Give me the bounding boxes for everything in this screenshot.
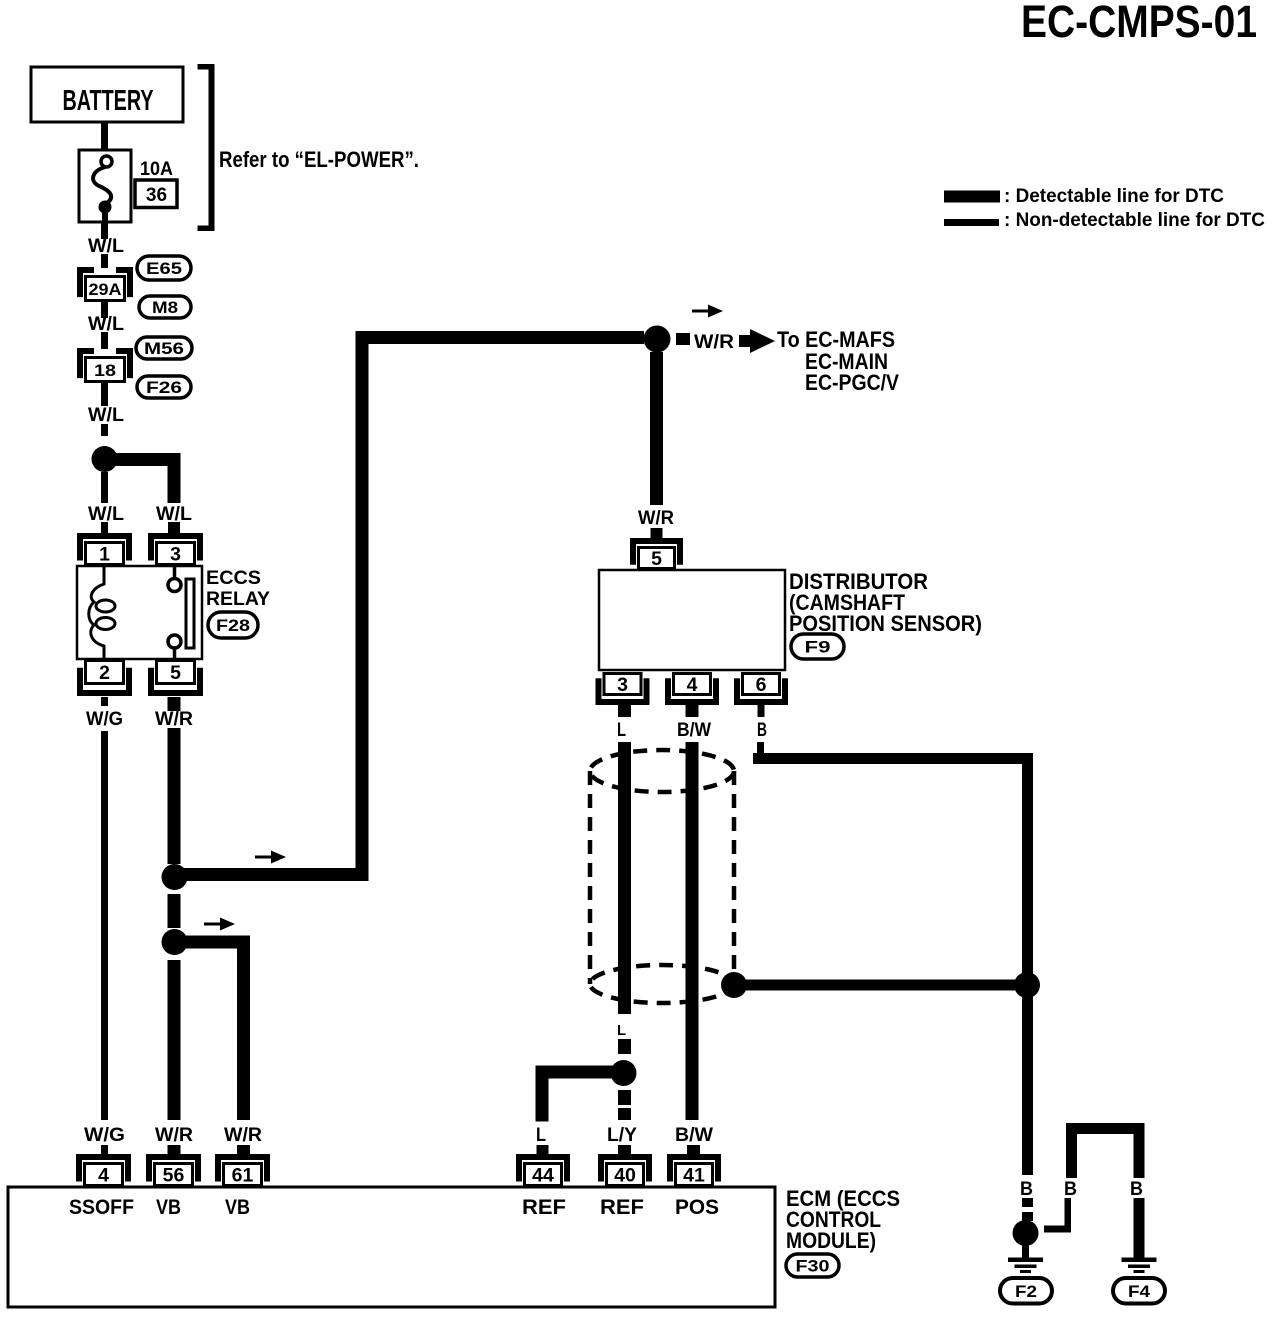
svg-text:44: 44: [532, 1165, 554, 1187]
svg-text:W/L: W/L: [156, 504, 192, 525]
svg-text:L/Y: L/Y: [607, 1125, 637, 1146]
svg-text:B/W: B/W: [677, 720, 711, 741]
svg-text:ECCS: ECCS: [206, 568, 261, 589]
svg-text:6: 6: [756, 674, 767, 696]
svg-text:VB: VB: [225, 1196, 250, 1219]
svg-text:W/L: W/L: [88, 236, 124, 257]
svg-text:B: B: [757, 720, 767, 741]
svg-text:F26: F26: [146, 378, 182, 397]
svg-text:29A: 29A: [89, 280, 122, 299]
svg-text:3: 3: [170, 544, 181, 566]
svg-text:POS: POS: [675, 1196, 719, 1219]
svg-text:F30: F30: [796, 1257, 830, 1276]
svg-text:W/G: W/G: [86, 709, 123, 730]
svg-text:F28: F28: [216, 616, 250, 635]
svg-text:4: 4: [98, 1165, 109, 1187]
svg-text:: Detectable line for DTC: : Detectable line for DTC: [1004, 186, 1224, 207]
svg-text:Refer to “EL-POWER”.: Refer to “EL-POWER”.: [219, 147, 419, 172]
svg-text:5: 5: [170, 662, 181, 684]
svg-text:EC-PGC/V: EC-PGC/V: [805, 370, 899, 395]
svg-text:1: 1: [99, 544, 110, 566]
svg-text:W/G: W/G: [84, 1125, 125, 1146]
svg-text:61: 61: [232, 1165, 254, 1187]
svg-text:F4: F4: [1128, 1282, 1151, 1301]
svg-text:VB: VB: [156, 1196, 181, 1219]
svg-text:W/R: W/R: [155, 709, 193, 730]
svg-text:BATTERY: BATTERY: [63, 85, 154, 117]
svg-text:M56: M56: [144, 339, 184, 358]
svg-text:REF: REF: [600, 1196, 644, 1219]
svg-text:B/W: B/W: [675, 1125, 713, 1146]
svg-text:B: B: [1130, 1179, 1143, 1200]
svg-text:M8: M8: [152, 298, 178, 317]
svg-text:56: 56: [163, 1165, 185, 1187]
svg-text:REF: REF: [522, 1196, 566, 1219]
svg-text:W/L: W/L: [88, 504, 124, 525]
svg-text:W/R: W/R: [694, 332, 734, 353]
svg-text:4: 4: [687, 674, 698, 696]
svg-text:: Non-detectable line for DTC: : Non-detectable line for DTC: [1004, 210, 1265, 231]
svg-text:W/R: W/R: [224, 1125, 262, 1146]
svg-text:L: L: [617, 1022, 626, 1039]
svg-text:B: B: [1064, 1179, 1077, 1200]
svg-text:F2: F2: [1015, 1282, 1037, 1301]
svg-text:10A: 10A: [140, 159, 173, 180]
svg-text:W/L: W/L: [88, 314, 124, 335]
svg-text:F9: F9: [805, 638, 831, 657]
svg-text:40: 40: [614, 1165, 636, 1187]
svg-text:RELAY: RELAY: [206, 589, 270, 610]
svg-text:B: B: [1020, 1179, 1033, 1200]
svg-text:W/L: W/L: [88, 405, 124, 426]
svg-text:3: 3: [617, 674, 628, 696]
svg-text:MODULE): MODULE): [786, 1228, 876, 1253]
svg-text:2: 2: [99, 662, 110, 684]
svg-text:L: L: [617, 720, 626, 741]
svg-text:SSOFF: SSOFF: [69, 1196, 134, 1219]
svg-text:41: 41: [683, 1165, 705, 1187]
svg-text:W/R: W/R: [638, 508, 674, 529]
svg-text:E65: E65: [146, 259, 182, 278]
svg-text:W/R: W/R: [155, 1125, 193, 1146]
svg-text:36: 36: [146, 185, 167, 206]
svg-text:18: 18: [94, 361, 116, 380]
svg-text:EC-CMPS-01: EC-CMPS-01: [1021, 0, 1257, 47]
svg-text:L: L: [536, 1125, 546, 1146]
svg-text:5: 5: [651, 548, 662, 570]
